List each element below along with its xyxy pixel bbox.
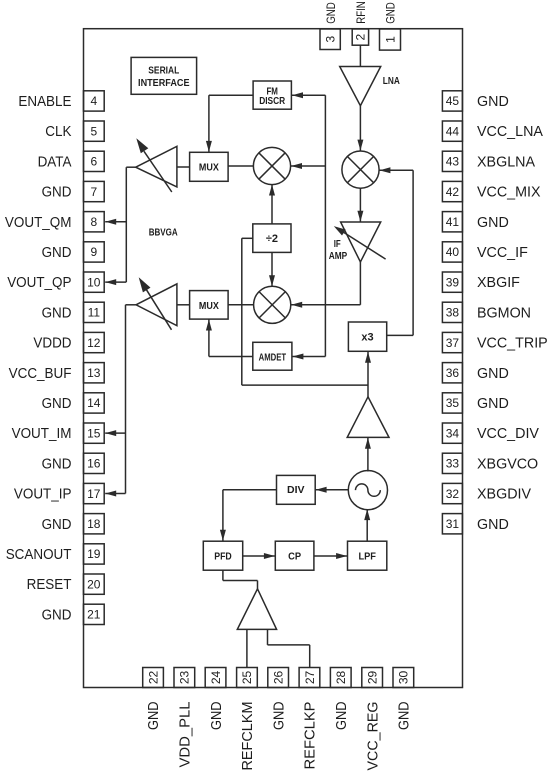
pin 23 box — [174, 668, 195, 688]
wire CP to LPF — [314, 553, 347, 559]
svg-text:AMP: AMP — [329, 251, 348, 262]
pin 20 box — [84, 574, 105, 594]
svg-text:40: 40 — [446, 245, 460, 259]
svg-text:31: 31 — [446, 517, 460, 531]
svg-text:GND: GND — [334, 702, 350, 731]
LPF block — [348, 541, 387, 570]
LNA amplifier — [340, 67, 381, 106]
svg-text:GND: GND — [42, 245, 72, 261]
chip outline — [84, 29, 463, 688]
svg-text:XBGIF: XBGIF — [477, 275, 520, 291]
svg-text:GND: GND — [42, 396, 72, 412]
wire BBVGA A2 to mux U2 — [177, 304, 190, 306]
pin 37 box — [442, 332, 462, 352]
wire LO buffer to x3 — [365, 352, 371, 397]
svg-text:x3: x3 — [361, 332, 373, 344]
pin 39 box — [442, 272, 462, 292]
svg-text:38: 38 — [446, 306, 460, 320]
pin 27 box — [299, 668, 320, 688]
LO buffer amplifier — [347, 397, 389, 438]
PFD block — [203, 541, 242, 570]
wire IF bus to AM detector — [292, 354, 325, 360]
pin 4 box — [84, 91, 105, 111]
svg-text:MUX: MUX — [199, 301, 219, 312]
svg-text:3: 3 — [323, 36, 337, 43]
svg-text:VCC_IF: VCC_IF — [477, 245, 528, 261]
svg-text:RESET: RESET — [27, 577, 72, 593]
svg-text:18: 18 — [87, 517, 101, 531]
pin 35 box — [442, 393, 462, 413]
wire DIV to PFD — [220, 490, 277, 541]
svg-text:33: 33 — [446, 457, 460, 471]
svg-text:GND: GND — [209, 702, 225, 731]
svg-text:17: 17 — [87, 487, 101, 501]
wire FM discriminator to mux U1 — [206, 95, 253, 152]
svg-text:CLK: CLK — [45, 124, 72, 140]
serial interface block — [131, 57, 197, 94]
wire IF amp output to Q mixer — [291, 262, 360, 308]
wire PFD to CP — [243, 553, 275, 559]
mux U2 (Q path) — [190, 291, 229, 320]
svg-text:25: 25 — [240, 671, 254, 685]
wire LPF to VCO — [364, 509, 370, 541]
pin 5 box — [84, 121, 105, 141]
svg-text:GND: GND — [42, 185, 72, 201]
svg-text:19: 19 — [87, 547, 101, 561]
svg-text:39: 39 — [446, 275, 460, 289]
svg-text:REFCLKM: REFCLKM — [240, 702, 256, 771]
wire IF bus to FM discriminator — [292, 92, 325, 98]
pin 43 box — [442, 151, 462, 171]
wire to VOUT_IP pin17 — [105, 491, 125, 497]
wire VCO to DIV — [316, 487, 349, 493]
pin 33 box — [442, 453, 462, 473]
pin 25 box — [237, 668, 258, 688]
svg-text:12: 12 — [87, 336, 101, 350]
svg-text:GND: GND — [477, 215, 509, 231]
svg-text:20: 20 — [87, 577, 101, 591]
svg-text:36: 36 — [446, 366, 460, 380]
AM detector block — [253, 342, 292, 370]
CP block — [275, 541, 314, 570]
pin 17 box — [84, 483, 105, 503]
divide-by-2 block — [253, 224, 291, 253]
svg-text:11: 11 — [88, 306, 101, 320]
IF AMP label — [329, 239, 348, 262]
pin 6 box — [84, 151, 105, 171]
svg-text:32: 32 — [446, 487, 460, 501]
svg-text:23: 23 — [178, 671, 192, 685]
svg-text:VCC_MIX: VCC_MIX — [477, 185, 541, 201]
svg-text:DIV: DIV — [287, 485, 305, 496]
svg-text:CP: CP — [288, 552, 301, 563]
wire REFCLKM pin25 to reference buffer — [246, 629, 248, 667]
pin 38 box — [442, 302, 462, 322]
pin 26 box — [268, 668, 289, 688]
svg-text:5: 5 — [90, 125, 97, 139]
svg-text:6: 6 — [90, 155, 97, 169]
pin 40 box — [442, 242, 462, 262]
pin 13 box — [84, 363, 105, 383]
svg-text:GND: GND — [42, 607, 72, 623]
svg-text:26: 26 — [272, 671, 286, 685]
pin 15 box — [84, 423, 105, 443]
pin 10 box — [84, 272, 105, 292]
svg-text:GND: GND — [477, 366, 509, 382]
pin 8 box — [84, 212, 105, 232]
DIV block — [277, 475, 316, 504]
pin 22 box — [143, 668, 164, 688]
pin 42 box — [442, 181, 462, 201]
svg-text:GND: GND — [477, 517, 509, 533]
svg-text:37: 37 — [446, 336, 460, 350]
svg-text:GND: GND — [146, 702, 162, 731]
svg-text:VOUT_IM: VOUT_IM — [12, 426, 72, 442]
pin 16 box — [84, 453, 105, 473]
svg-text:16: 16 — [87, 457, 101, 471]
pin 11 box — [84, 302, 105, 322]
svg-text:27: 27 — [303, 671, 317, 685]
svg-text:GND: GND — [271, 702, 287, 731]
pin 24 box — [205, 668, 226, 688]
wire mux U1 to I mixer — [228, 165, 253, 167]
svg-text:15: 15 — [87, 426, 101, 440]
svg-text:VCC_TRIP: VCC_TRIP — [477, 336, 548, 352]
wire div2 to Q mixer — [269, 252, 275, 286]
pin 29 box — [362, 668, 383, 688]
svg-text:1: 1 — [383, 36, 397, 43]
svg-text:IF: IF — [334, 239, 341, 250]
pin 34 box — [442, 423, 462, 443]
FM discriminator block — [253, 81, 291, 109]
wire to VOUT_QM pin8 — [105, 219, 126, 225]
wire RFIN pin2 to LNA — [359, 45, 361, 66]
pin 32 box — [442, 483, 462, 503]
svg-text:43: 43 — [446, 155, 460, 169]
mux U1 (I path) — [190, 152, 229, 181]
svg-text:GND: GND — [397, 702, 413, 731]
wire AM detector to mux U2 — [206, 320, 253, 357]
svg-text:VDDD: VDDD — [33, 336, 71, 352]
svg-text:PFD: PFD — [214, 552, 232, 563]
svg-text:SERIAL: SERIAL — [148, 65, 179, 76]
BBVGA amplifier A1 (Q output) — [136, 138, 177, 192]
pin 19 box — [84, 544, 105, 564]
svg-text:21: 21 — [87, 608, 101, 622]
svg-text:VOUT_QP: VOUT_QP — [7, 275, 71, 291]
pin 1 box — [380, 29, 401, 50]
svg-text:DISCR: DISCR — [259, 96, 286, 107]
svg-text:10: 10 — [87, 275, 101, 289]
svg-text:XBGLNA: XBGLNA — [477, 154, 535, 170]
svg-text:24: 24 — [209, 671, 223, 685]
wire LO buffer to div2 input — [242, 238, 368, 385]
svg-text:42: 42 — [446, 185, 460, 199]
svg-text:13: 13 — [87, 366, 101, 380]
svg-text:RFIN: RFIN — [354, 1, 368, 24]
mixer M1 (I mixer) — [253, 147, 290, 184]
svg-text:GND: GND — [42, 305, 72, 321]
svg-text:GND: GND — [42, 517, 72, 533]
svg-text:VOUT_IP: VOUT_IP — [14, 487, 72, 503]
svg-text:41: 41 — [446, 215, 460, 229]
wire LNA to RF mixer — [357, 106, 363, 151]
svg-text:GND: GND — [477, 94, 509, 110]
wire BBVGA A1 to mux U1 — [177, 166, 190, 168]
svg-text:ENABLE: ENABLE — [18, 94, 71, 110]
pin 7 box — [84, 181, 105, 201]
svg-text:29: 29 — [365, 671, 379, 685]
wire div2 to I mixer — [269, 185, 275, 224]
svg-text:VCC_REG: VCC_REG — [365, 702, 381, 771]
IF amplifier (variable gain) — [334, 222, 386, 262]
wire to VOUT_IM pin15 — [105, 430, 125, 436]
svg-text:22: 22 — [146, 671, 160, 685]
svg-text:2: 2 — [354, 33, 368, 40]
svg-text:GND: GND — [384, 2, 398, 24]
svg-text:LPF: LPF — [358, 552, 376, 563]
mixer M2 (RF mixer) — [342, 151, 379, 188]
svg-text:45: 45 — [446, 94, 460, 108]
wire to VOUT_QP pin10 — [105, 279, 126, 285]
pin 9 box — [84, 242, 105, 262]
svg-text:AMDET: AMDET — [259, 352, 287, 363]
pin 28 box — [330, 668, 351, 688]
pin 30 box — [393, 668, 414, 688]
wire reference buffer to PFD — [223, 570, 258, 589]
svg-text:XBGDIV: XBGDIV — [477, 487, 531, 503]
svg-text:GND: GND — [477, 396, 509, 412]
svg-text:GND: GND — [324, 2, 338, 24]
svg-text:35: 35 — [446, 396, 460, 410]
svg-text:REFCLKP: REFCLKP — [303, 702, 319, 770]
svg-text:7: 7 — [90, 185, 97, 199]
wire IF signal bus vertical — [324, 95, 326, 356]
svg-text:DATA: DATA — [38, 154, 72, 170]
svg-text:÷2: ÷2 — [266, 233, 278, 245]
svg-text:XBGVCO: XBGVCO — [477, 456, 538, 472]
svg-text:9: 9 — [90, 245, 97, 259]
wire RF mixer to IF amp — [357, 188, 363, 222]
VCO oscillator — [348, 471, 387, 510]
svg-text:LNA: LNA — [383, 76, 400, 87]
pin 12 box — [84, 332, 105, 352]
wire IF bus to I mixer — [291, 163, 325, 169]
svg-text:VCC_LNA: VCC_LNA — [477, 124, 543, 140]
svg-text:VOUT_QM: VOUT_QM — [5, 215, 72, 231]
svg-text:28: 28 — [334, 671, 348, 685]
wire BBVGA A2 output trunk — [126, 305, 137, 494]
pin 45 box — [442, 91, 462, 111]
BBVGA amplifier A2 (I output) — [136, 277, 177, 330]
pin 2 box — [352, 29, 368, 45]
wire mux U2 to Q mixer — [228, 304, 254, 306]
pin 3 box — [320, 29, 340, 50]
wire REFCLKP pin27 to reference buffer — [268, 629, 310, 667]
wire x3 output to RF mixer — [379, 167, 413, 335]
svg-text:4: 4 — [90, 94, 97, 108]
pin 14 box — [84, 393, 105, 413]
svg-text:VCC_BUF: VCC_BUF — [9, 366, 72, 382]
wire VCO to LO buffer — [365, 438, 371, 472]
svg-text:8: 8 — [90, 215, 97, 229]
svg-text:BGMON: BGMON — [477, 305, 531, 321]
pin 41 box — [442, 212, 462, 232]
pin 21 box — [84, 604, 105, 624]
mixer M3 (Q mixer) — [254, 286, 291, 323]
svg-text:INTERFACE: INTERFACE — [138, 78, 190, 89]
wire BBVGA A1 output trunk — [126, 167, 135, 282]
reference clock buffer amplifier — [237, 589, 276, 630]
svg-text:14: 14 — [87, 396, 101, 410]
svg-text:34: 34 — [446, 426, 460, 440]
svg-text:VCC_DIV: VCC_DIV — [477, 426, 539, 442]
pin 31 box — [442, 514, 462, 534]
svg-text:BBVGA: BBVGA — [149, 227, 178, 238]
pin 36 box — [442, 363, 462, 383]
x3 multiplier block — [348, 322, 386, 351]
pin 44 box — [442, 121, 462, 141]
svg-text:44: 44 — [446, 125, 460, 139]
svg-text:GND: GND — [42, 456, 72, 472]
pin 18 box — [84, 514, 105, 534]
svg-text:MUX: MUX — [199, 163, 219, 174]
svg-text:SCANOUT: SCANOUT — [6, 547, 72, 563]
svg-text:30: 30 — [397, 671, 411, 685]
svg-text:VDD_PLL: VDD_PLL — [178, 701, 194, 767]
